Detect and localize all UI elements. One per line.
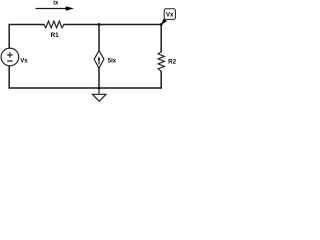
- wire right vertical (top corner to resistor R2): [160, 25, 162, 52]
- junction dot top (middle branch / top wire): [98, 23, 101, 26]
- wire middle branch (current source to bottom wire): [98, 68, 100, 88]
- voltage source plus sign: [8, 53, 13, 58]
- node Vx label bubble: [164, 9, 175, 20]
- wire top right segment: [64, 24, 161, 26]
- dependent current source diamond: [94, 51, 104, 69]
- ix arrow shaft: [36, 8, 67, 10]
- ground stub: [98, 88, 100, 94]
- wire left vertical (top part above source Vs): [8, 25, 10, 49]
- wire middle branch (top wire to current source): [98, 25, 100, 51]
- wire top left segment: [9, 24, 44, 26]
- svg-text:Vs: Vs: [20, 58, 28, 64]
- current source arrowhead (inside diamond): [98, 56, 100, 60]
- junction dot bottom (middle branch / bottom wire): [98, 87, 101, 90]
- resistor R1 zigzag: [44, 21, 64, 28]
- ground triangle: [92, 94, 106, 101]
- svg-text:ix: ix: [53, 0, 59, 6]
- svg-text:R1: R1: [51, 32, 60, 39]
- svg-text:5ix: 5ix: [108, 58, 117, 64]
- wire right vertical (resistor R2 to bottom wire): [160, 71, 162, 88]
- svg-text:R2: R2: [168, 59, 177, 66]
- resistor R2 zigzag: [158, 52, 164, 71]
- ix arrowhead: [66, 6, 74, 11]
- wire left vertical (bottom part below source Vs): [8, 66, 10, 88]
- wire bottom: [9, 87, 161, 89]
- current source arrow shaft: [98, 59, 100, 64]
- svg-text:Vx: Vx: [166, 12, 174, 18]
- voltage source Vs circle: [1, 48, 19, 66]
- junction dot node Vx corner: [160, 23, 163, 26]
- node Vx pointer wedge: [161, 19, 167, 25]
- voltage source minus sign: [8, 60, 13, 62]
